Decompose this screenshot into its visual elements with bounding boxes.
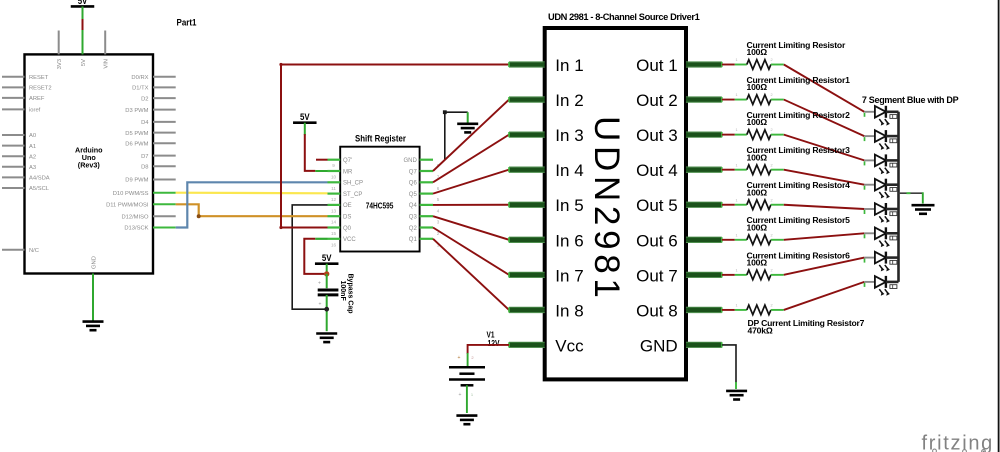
svg-text:Q5: Q5 <box>409 192 418 198</box>
svg-text:OE: OE <box>343 203 352 209</box>
svg-text:D5 PWM: D5 PWM <box>125 131 148 137</box>
ground under battery V1 <box>456 416 477 425</box>
arduino pin 3V3 <box>58 31 60 55</box>
arduino pin D1/TX <box>153 86 176 88</box>
svg-text:2: 2 <box>770 198 772 202</box>
UDN2981 pin Out 1 lead <box>686 62 722 67</box>
wire Q2 to In 7 <box>433 228 509 275</box>
ground near shift register <box>457 124 478 133</box>
74HC595 pin 15 Q0 <box>328 226 341 228</box>
svg-text:D7: D7 <box>141 154 148 160</box>
LED segment 7 <box>864 252 898 272</box>
svg-text:Out 1: Out 1 <box>636 56 678 75</box>
svg-text:VIN: VIN <box>104 59 110 69</box>
74HC595 pin 6 Q6 <box>420 181 433 183</box>
arduino pin D11 PWM/MOSI <box>153 203 176 205</box>
resistor R4 100Ω <box>735 169 747 171</box>
wire resistor R4 to LED 4 <box>784 170 865 185</box>
svg-text:SH_CP: SH_CP <box>343 181 363 187</box>
resistor R8 470kΩ <box>735 309 747 311</box>
svg-text:3V3: 3V3 <box>57 59 63 69</box>
svg-text:100Ω: 100Ω <box>747 257 768 267</box>
svg-text:Q6: Q6 <box>409 181 418 187</box>
ground under bypass cap <box>316 334 337 343</box>
74HC595 pin 1 Q1 <box>420 238 433 240</box>
UDN2981 pin In 4 lead <box>509 167 545 172</box>
svg-text:+: + <box>459 392 462 398</box>
svg-text:In 1: In 1 <box>555 56 583 75</box>
arduino pin RESET <box>2 76 25 78</box>
svg-text:ioref: ioref <box>29 108 41 114</box>
arduino pin AREF <box>2 97 25 99</box>
wire down to ground <box>922 192 924 203</box>
svg-text:D4: D4 <box>141 120 149 126</box>
svg-text:100Ω: 100Ω <box>747 82 768 92</box>
resistor R3 100Ω <box>735 134 747 136</box>
svg-text:2: 2 <box>770 93 772 97</box>
svg-text:100Ω: 100Ω <box>747 187 768 197</box>
svg-text:Out 5: Out 5 <box>636 196 678 215</box>
svg-text:5: 5 <box>437 197 440 202</box>
svg-text:D10 PWM/SS: D10 PWM/SS <box>113 191 149 197</box>
svg-text:2: 2 <box>770 268 772 272</box>
svg-text:3: 3 <box>437 220 440 225</box>
74HC595 pin 13 OE <box>328 204 341 206</box>
LED segment 2 <box>864 130 898 150</box>
UDN2981 pin In 5 lead <box>509 202 545 207</box>
wire Q4 to In 5 <box>433 204 509 206</box>
svg-text:5V: 5V <box>78 0 88 6</box>
svg-text:D0/RX: D0/RX <box>131 75 148 81</box>
svg-text:Out 8: Out 8 <box>636 301 678 320</box>
svg-text:2: 2 <box>770 58 772 62</box>
svg-text:1: 1 <box>735 128 737 132</box>
svg-text:100Ω: 100Ω <box>747 222 768 232</box>
svg-text:2: 2 <box>770 128 772 132</box>
wire Q5 to In 4 <box>433 170 509 194</box>
svg-text:Bypass Cap100nF: Bypass Cap100nF <box>339 274 353 314</box>
UDN2981 pin GND lead <box>686 342 722 347</box>
svg-text:D1/TX: D1/TX <box>132 86 149 92</box>
arduino pin ioref <box>2 108 25 110</box>
UDN2981 pin Out 3 lead <box>686 132 722 137</box>
LED segment 8 <box>864 276 898 296</box>
UDN2981 pin Out 7 lead <box>686 272 722 277</box>
svg-text:D2: D2 <box>141 96 148 102</box>
arduino U-Part1 box <box>25 54 154 273</box>
svg-text:14: 14 <box>331 220 337 225</box>
svg-text:100Ω: 100Ω <box>747 152 768 162</box>
junction bendpoint red <box>279 63 282 66</box>
svg-text:GND: GND <box>403 158 417 164</box>
svg-text:16: 16 <box>331 242 337 247</box>
svg-text:470kΩ: 470kΩ <box>748 325 773 335</box>
UDN2981 pin Out 6 lead <box>686 237 722 242</box>
svg-text:D12/MISO: D12/MISO <box>121 214 149 220</box>
wire red stub from Q7 prime <box>316 159 328 161</box>
svg-text:74HC595: 74HC595 <box>366 201 394 211</box>
svg-text:In 4: In 4 <box>555 161 583 180</box>
wire 74HC595 GND to ground <box>445 112 468 160</box>
svg-text:Vcc: Vcc <box>555 336 584 355</box>
svg-text:UDN2981: UDN2981 <box>587 116 626 303</box>
wire 5V to arduino <box>82 6 84 54</box>
arduino pin RESET2 <box>2 86 25 88</box>
shift register U2 74HC595 box <box>340 147 419 252</box>
arduino pin D4 <box>153 121 176 123</box>
svg-text:In 2: In 2 <box>555 91 583 110</box>
svg-text:A2: A2 <box>29 154 36 160</box>
svg-text:A1: A1 <box>29 144 36 150</box>
74HC595 pin 12 ST_CP <box>328 193 341 195</box>
svg-text:5V: 5V <box>81 59 87 66</box>
wire UDN GND to ground <box>722 345 736 383</box>
svg-text:1: 1 <box>735 198 737 202</box>
arduino pin D12/MISO <box>153 215 176 217</box>
arduino pin VIN <box>104 31 106 55</box>
svg-text:RESET: RESET <box>29 75 49 81</box>
wire red VCC to 5V junction <box>304 239 326 274</box>
capacitor C1 bypass 100nF <box>318 290 339 295</box>
svg-text:VCC: VCC <box>343 237 356 243</box>
arduino pin A5/SCL <box>2 187 25 189</box>
wire resistor R6 to LED 6 <box>784 233 865 240</box>
svg-text:A5/SCL: A5/SCL <box>29 186 50 192</box>
wire Out 8 to resistor R8 <box>722 309 735 311</box>
svg-text:1: 1 <box>735 58 737 62</box>
junction dot <box>324 271 329 276</box>
resistor R1 100Ω <box>735 64 747 66</box>
arduino pin N/C <box>2 249 25 251</box>
junction bendpoint orange <box>197 214 201 218</box>
svg-text:9: 9 <box>332 163 335 168</box>
wire display common to ground <box>899 192 923 194</box>
svg-text:Q3: Q3 <box>409 215 418 221</box>
ground for display common <box>912 205 935 214</box>
svg-text:Out 3: Out 3 <box>636 126 678 145</box>
74HC595 pin 8 GND <box>420 159 433 161</box>
right border frame <box>998 0 1000 452</box>
wire 5V to MR <box>304 123 306 135</box>
wire resistor R2 to LED 2 <box>784 100 865 137</box>
power 5V symbol (bypass cap) <box>315 253 339 264</box>
LED segment 1 <box>864 106 898 126</box>
svg-text:12: 12 <box>331 197 337 202</box>
svg-text:7 Segment Blue with DP: 7 Segment Blue with DP <box>862 95 959 105</box>
arduino pin D3 PWM <box>153 109 176 111</box>
resistor R2 100Ω <box>735 99 747 101</box>
svg-text:2: 2 <box>770 163 772 167</box>
arduino pin A4/SDA <box>2 176 25 178</box>
svg-text:+: + <box>458 355 461 361</box>
svg-text:In 5: In 5 <box>555 196 583 215</box>
arduino pin D9 PWM <box>153 179 176 181</box>
resistor R5 100Ω <box>735 204 747 206</box>
wire V1 to Vcc <box>468 345 509 354</box>
svg-text:1: 1 <box>735 268 737 272</box>
wire red segment overlay <box>82 19 84 30</box>
arduino pin A1 <box>2 145 25 147</box>
svg-text:In 6: In 6 <box>555 231 583 250</box>
wire Out 4 to resistor R4 <box>722 169 735 171</box>
wire battery minus to ground <box>466 385 468 413</box>
wire junction to cap <box>326 274 328 288</box>
svg-text:11: 11 <box>331 186 336 191</box>
wire Out 5 to resistor R5 <box>722 204 735 206</box>
74HC595 pin 3 Q3 <box>420 215 433 217</box>
svg-text:Q4: Q4 <box>409 203 418 209</box>
74HC595 pin 14 DS <box>328 215 341 217</box>
junction dot black <box>324 307 329 312</box>
wire Q3 to In 6 <box>433 216 509 240</box>
svg-text:D3 PWM: D3 PWM <box>125 108 148 114</box>
svg-text:100Ω: 100Ω <box>747 47 768 57</box>
wire black OE to cap gnd junction <box>292 205 327 309</box>
wire Q1 to In 8 <box>433 239 509 310</box>
arduino pin D10 PWM/SS <box>153 192 176 194</box>
svg-text:Q1: Q1 <box>409 237 418 243</box>
svg-text:In 7: In 7 <box>555 266 583 285</box>
svg-text:1: 1 <box>735 163 737 167</box>
wire red In1 loop to Q0 <box>281 65 509 228</box>
svg-text:N/C: N/C <box>29 248 39 254</box>
svg-text:10: 10 <box>331 175 337 180</box>
LED segment 4 <box>864 179 898 199</box>
svg-text:13: 13 <box>331 208 337 213</box>
74HC595 pin 4 Q4 <box>420 204 433 206</box>
svg-text:Out 2: Out 2 <box>636 91 678 110</box>
wire yellow D10 to ST_CP <box>176 192 328 195</box>
svg-text:A0: A0 <box>29 133 36 139</box>
svg-text:5V: 5V <box>300 112 310 122</box>
battery V1 plates <box>449 367 485 385</box>
svg-text:RESET2: RESET2 <box>29 86 52 92</box>
wire arduino GND down <box>92 274 94 322</box>
wire resistor R5 to LED 5 <box>784 205 865 209</box>
UDN2981 pin Out 8 lead <box>686 307 722 312</box>
arduino pin D0/RX <box>153 76 176 78</box>
wire Out 6 to resistor R6 <box>722 239 735 241</box>
svg-text:A4/SDA: A4/SDA <box>29 176 50 182</box>
svg-text:Out 7: Out 7 <box>636 266 678 285</box>
LED segment 5 <box>864 203 898 223</box>
arduino pin A0 <box>2 134 25 136</box>
UDN2981 pin In 8 lead <box>509 307 545 312</box>
svg-text:UDN 2981 - 8-Channel Source Dr: UDN 2981 - 8-Channel Source Driver1 <box>548 12 700 22</box>
arduino pin D6 PWM <box>153 142 176 144</box>
wire orange D11 to DS <box>176 204 328 216</box>
LED segment 3 <box>864 154 898 174</box>
UDN2981 pin In 3 lead <box>509 132 545 137</box>
wire resistor R7 to LED 7 <box>784 258 865 275</box>
wire 5V bar to junction <box>326 264 328 274</box>
UDN2981 pin Vcc lead <box>509 342 545 347</box>
wire Out 3 to resistor R3 <box>722 134 735 136</box>
wire resistor R1 to LED 1 <box>784 65 865 112</box>
svg-text:1: 1 <box>735 93 737 97</box>
wire cap to ground <box>326 295 328 331</box>
svg-text:ST_CP: ST_CP <box>343 192 362 198</box>
LED segment 6 <box>864 227 898 247</box>
resistor R6 100Ω <box>735 239 747 241</box>
svg-text:2: 2 <box>770 304 772 308</box>
wire Q7 to In 2 <box>433 100 509 171</box>
svg-text:MR: MR <box>343 169 353 175</box>
svg-text:Out 4: Out 4 <box>636 161 678 180</box>
svg-text:2: 2 <box>770 233 772 237</box>
svg-text:+: + <box>318 281 321 287</box>
svg-text:100Ω: 100Ω <box>747 117 768 127</box>
svg-text:Part1: Part1 <box>177 18 197 28</box>
74HC595 pin 5 Q5 <box>420 193 433 195</box>
svg-text:In 8: In 8 <box>555 301 583 320</box>
svg-text:6: 6 <box>437 186 440 191</box>
arduino pin D13/SCK <box>153 227 176 229</box>
wire Out 2 to resistor R2 <box>722 99 735 101</box>
svg-text:A3: A3 <box>29 165 36 171</box>
svg-text:1: 1 <box>735 304 737 308</box>
arduino pin D5 PWM <box>153 132 176 134</box>
svg-text:4: 4 <box>437 208 440 213</box>
driver U1 UDN2981 box <box>545 28 686 379</box>
wire resistor R3 to LED 3 <box>784 135 865 161</box>
74HC595 pin 10 MR <box>328 170 341 172</box>
arduino pin D7 <box>153 155 176 157</box>
svg-text:D8: D8 <box>141 164 148 170</box>
arduino pin A3 <box>2 166 25 168</box>
74HC595 pin 11 SH_CP <box>328 181 341 183</box>
svg-text:12V: 12V <box>488 338 500 348</box>
UDN2981 pin In 6 lead <box>509 237 545 242</box>
resistor R7 100Ω <box>735 274 747 276</box>
svg-text:2: 2 <box>471 355 474 360</box>
battery top leg <box>467 353 469 366</box>
svg-text:D13/SCK: D13/SCK <box>124 226 148 232</box>
arduino pin D8 <box>153 165 176 167</box>
svg-text:AREF: AREF <box>29 96 45 102</box>
UDN2981 pin Out 2 lead <box>686 97 722 102</box>
svg-text:5V: 5V <box>322 253 332 263</box>
svg-text:GND: GND <box>640 336 678 355</box>
UDN2981 pin Out 5 lead <box>686 202 722 207</box>
74HC595 pin 16 VCC <box>328 238 341 240</box>
power 5V symbol (shift register MR) <box>293 112 317 123</box>
UDN2981 pin Out 4 lead <box>686 167 722 172</box>
svg-text:+: + <box>319 302 322 308</box>
svg-text:In 3: In 3 <box>555 126 583 145</box>
svg-text:1: 1 <box>471 392 474 397</box>
power 5V symbol (top, feeds arduino 5V pin) <box>71 0 95 6</box>
svg-text:D6 PWM: D6 PWM <box>125 141 148 147</box>
svg-text:Q2: Q2 <box>409 226 418 232</box>
svg-text:D11 PWM/MOSI: D11 PWM/MOSI <box>106 203 149 209</box>
wire Out 1 to resistor R1 <box>722 64 735 66</box>
UDN2981 pin In 1 lead <box>509 62 545 67</box>
svg-text:1: 1 <box>735 233 737 237</box>
74HC595 pin 7 Q7 <box>420 170 433 172</box>
svg-text:D9 PWM: D9 PWM <box>125 178 148 184</box>
arduino pin D2 <box>153 97 176 99</box>
wire Q6 to In 3 <box>433 135 509 183</box>
ground under arduino <box>83 322 104 331</box>
ground for UDN2981 GND <box>726 391 747 400</box>
wire blue D13 to SH_CP <box>176 182 328 227</box>
svg-text:Q7: Q7 <box>409 169 418 175</box>
wire Out 7 to resistor R7 <box>722 274 735 276</box>
svg-text:Shift Register: Shift Register <box>355 134 406 144</box>
svg-text:15: 15 <box>331 231 337 236</box>
UDN2981 pin In 7 lead <box>509 272 545 277</box>
74HC595 pin 2 Q2 <box>420 226 433 228</box>
74HC595 pin 9 Q7' <box>328 159 341 161</box>
svg-text:Q0: Q0 <box>343 226 352 232</box>
arduino pin A2 <box>2 155 25 157</box>
svg-text:Out 6: Out 6 <box>636 231 678 250</box>
svg-text:DS: DS <box>343 215 351 221</box>
UDN2981 pin In 2 lead <box>509 97 545 102</box>
svg-text:Q7': Q7' <box>343 158 352 164</box>
wire resistor R8 to LED 8 <box>784 282 865 310</box>
svg-text:GND: GND <box>92 256 98 269</box>
display cathode bus <box>897 112 900 282</box>
